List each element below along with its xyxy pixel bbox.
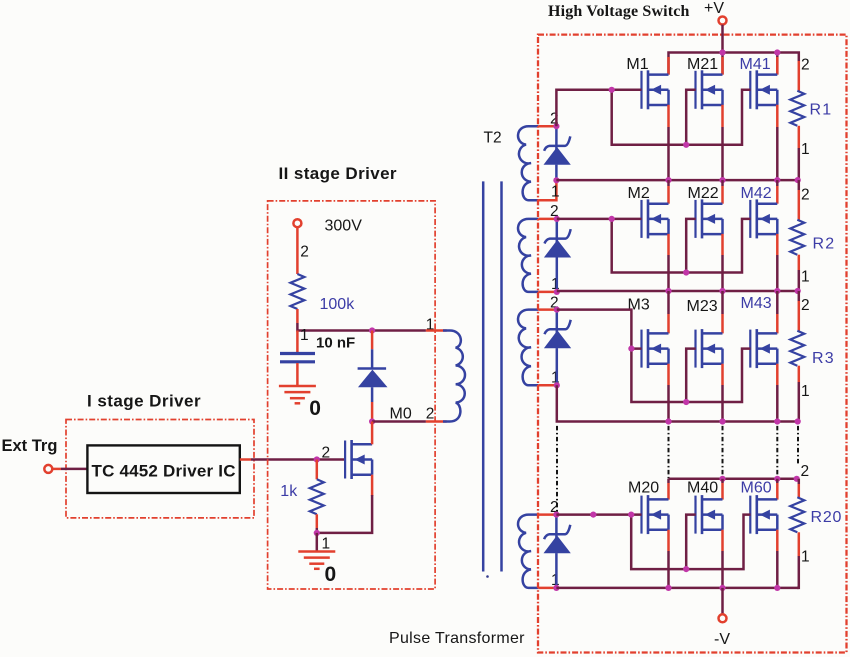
svg-text:300V: 300V xyxy=(325,218,363,235)
M43 name label xyxy=(741,295,772,312)
pin 1 label capacitor xyxy=(300,327,309,344)
I stage Driver title xyxy=(87,392,201,411)
wires row20 source stubs xyxy=(669,530,778,588)
300V terminal xyxy=(293,219,301,227)
transistor M42 xyxy=(750,199,777,238)
svg-text:M2: M2 xyxy=(628,185,650,202)
S4 pin 2 label xyxy=(550,499,559,516)
R2 pin 2 label xyxy=(801,187,810,204)
svg-text:-V: -V xyxy=(714,631,730,648)
transformer T2 primary winding xyxy=(426,331,465,422)
wire row2 gate net xyxy=(557,219,751,273)
R3 pin 2 label xyxy=(801,297,810,314)
svg-text:TC 4452 Driver IC: TC 4452 Driver IC xyxy=(91,462,235,481)
transformer core xyxy=(483,181,501,577)
primary pin 1 label xyxy=(426,316,435,333)
svg-text:R3: R3 xyxy=(812,350,835,367)
svg-text:1k: 1k xyxy=(280,483,298,500)
svg-text:R20: R20 xyxy=(811,509,843,526)
junction M41 drain rail xyxy=(774,49,780,55)
svg-text:M0: M0 xyxy=(390,406,412,423)
300V label xyxy=(325,218,363,235)
svg-text:Pulse Transformer: Pulse Transformer xyxy=(389,630,525,647)
svg-text:2: 2 xyxy=(801,57,810,74)
resistor 100k xyxy=(290,274,304,309)
secondary winding S1 xyxy=(518,126,556,200)
wire to ground 2 xyxy=(316,533,319,552)
High Voltage Switch enclosure box xyxy=(538,35,847,653)
M42 name label xyxy=(741,185,772,202)
R3 pin 1 label xyxy=(801,383,810,400)
zener diode Z2 xyxy=(544,219,571,292)
junction row1 gate rail M21 xyxy=(683,142,689,148)
junction S3 bottom xyxy=(554,382,560,388)
svg-text:M20: M20 xyxy=(628,480,659,497)
wires row3 source stubs xyxy=(669,364,778,422)
junction M0 gate / 1k top xyxy=(314,456,320,462)
ground 0 below 1k xyxy=(298,552,336,587)
wire row1 gate net xyxy=(556,90,750,145)
pin 2 label of R 100k xyxy=(300,244,309,261)
junction row20 gate rail M40 xyxy=(683,566,689,572)
junction node 1 xyxy=(369,327,375,333)
junction +V rail xyxy=(719,49,725,55)
R1 pin 2 label xyxy=(801,57,810,74)
wire 1k bottom stub xyxy=(316,514,319,533)
row20 drain rail xyxy=(669,478,798,481)
wires row2 source stubs xyxy=(669,234,778,291)
M40 name label xyxy=(687,480,718,497)
II stage Driver enclosure box xyxy=(268,201,436,589)
junctions row20 drain rail xyxy=(719,476,799,482)
red pins row1 drains xyxy=(669,57,778,75)
junction row20 gate a xyxy=(590,511,596,517)
wire capacitor to ground xyxy=(296,363,299,386)
M41 name label xyxy=(740,56,771,73)
T2 label xyxy=(484,129,502,146)
transistor M1 xyxy=(642,70,669,109)
transistor M41 xyxy=(750,70,777,109)
junction S4 bottom xyxy=(553,585,559,591)
junction 1k bottom xyxy=(314,530,320,536)
M21 name label xyxy=(687,56,718,73)
II stage Driver title xyxy=(279,164,397,183)
svg-text:M21: M21 xyxy=(687,56,718,73)
S4 pin 1 label xyxy=(551,572,560,589)
M3 name label xyxy=(628,296,650,313)
wire TC4452 output to M0 gate xyxy=(240,458,344,461)
transistor M20 xyxy=(642,495,669,534)
R2 name label xyxy=(813,235,836,252)
svg-text:1: 1 xyxy=(801,269,810,286)
S3 pin 1 label xyxy=(551,369,560,386)
svg-text:M60: M60 xyxy=(741,480,772,497)
row1 drain rail +V xyxy=(669,53,799,75)
+V label xyxy=(704,0,724,17)
svg-text:+V: +V xyxy=(704,0,724,17)
transistor M2 xyxy=(642,199,669,238)
junction S4 top xyxy=(553,511,559,517)
resistor R3 xyxy=(790,291,804,422)
S1 pin 1 label xyxy=(551,184,560,201)
100k value label xyxy=(320,296,356,313)
transistor M22 xyxy=(696,199,723,238)
transistor M3 xyxy=(642,329,669,368)
Pulse Transformer label xyxy=(389,630,525,647)
secondary winding S2 xyxy=(518,219,557,292)
junction S1 bottom xyxy=(553,177,559,183)
wires row2 drain stubs xyxy=(669,180,778,204)
R20 pin 1 label xyxy=(801,549,810,566)
svg-text:M22: M22 xyxy=(688,185,719,202)
M20 name label xyxy=(628,480,659,497)
wire row3 gate net xyxy=(557,310,751,402)
svg-text:M1: M1 xyxy=(626,56,648,73)
resistor R1 xyxy=(790,61,804,180)
transistor M60 xyxy=(750,495,777,534)
junction row1 gate xyxy=(609,87,615,93)
svg-text:M42: M42 xyxy=(741,185,772,202)
svg-text:1: 1 xyxy=(322,536,331,553)
wire +V to rail xyxy=(721,25,724,53)
svg-text:10 nF: 10 nF xyxy=(316,335,355,352)
transistor M21 xyxy=(696,70,723,109)
+V terminal xyxy=(719,17,727,25)
svg-text:1: 1 xyxy=(801,383,810,400)
wire row20 gate net xyxy=(556,515,750,570)
-V terminal xyxy=(719,614,727,622)
wire Ext Trg to TC4452 xyxy=(53,468,88,471)
svg-text:1: 1 xyxy=(801,549,810,566)
wire 100k to node 1 xyxy=(297,309,426,331)
R1 name label xyxy=(810,102,833,119)
row2 source rail xyxy=(557,290,799,293)
Ext Trg label xyxy=(2,437,58,455)
M23 name label xyxy=(687,298,718,315)
wire node to primary pin 2 xyxy=(372,420,426,423)
wires row20 drain stubs xyxy=(669,479,778,500)
svg-text:R2: R2 xyxy=(813,235,836,252)
wire 1k top stub xyxy=(316,460,319,480)
svg-text:M43: M43 xyxy=(741,295,772,312)
M2 name label xyxy=(628,185,650,202)
transistor M43 xyxy=(750,329,777,368)
svg-text:0: 0 xyxy=(325,563,337,586)
resistor R2 xyxy=(790,180,804,291)
svg-text:2: 2 xyxy=(300,244,309,261)
op-amp U1 TC 4452 Driver IC xyxy=(87,445,239,493)
svg-text:T2: T2 xyxy=(484,129,502,146)
secondary winding S3 xyxy=(518,310,557,386)
Ext Trg terminal xyxy=(44,465,52,473)
-V label xyxy=(714,631,730,648)
R20 name label xyxy=(811,509,843,526)
svg-text:2: 2 xyxy=(801,463,810,480)
svg-text:M40: M40 xyxy=(687,480,718,497)
secondary winding S4 xyxy=(518,515,556,588)
wire row3 source rail xyxy=(557,385,799,421)
capacitor C 10nF xyxy=(280,354,315,362)
svg-text:M23: M23 xyxy=(687,298,718,315)
wire node to capacitor xyxy=(296,331,299,353)
S3 pin 2 label xyxy=(550,294,559,311)
row1 source rail xyxy=(556,179,798,182)
I stage Driver enclosure box xyxy=(66,420,254,518)
junction row3 gate rail M23 xyxy=(683,399,689,405)
S1 pin 2 label xyxy=(550,111,559,128)
R3 name label xyxy=(812,350,835,367)
junction row3 gate xyxy=(628,346,634,352)
svg-text:0: 0 xyxy=(309,397,321,420)
transistor M23 xyxy=(696,329,723,368)
wire to -V terminal xyxy=(721,588,724,614)
pin 1 label 1k xyxy=(322,536,331,553)
svg-text:1: 1 xyxy=(551,184,560,201)
svg-text:I stage Driver: I stage Driver xyxy=(87,392,201,411)
S2 pin 2 label xyxy=(550,203,559,220)
junction row20 gate b xyxy=(628,511,634,517)
junction S2 bottom xyxy=(554,289,560,295)
High Voltage Switch title xyxy=(548,3,690,20)
junction row2 gate rail M22 xyxy=(683,269,689,275)
junctions row1 source rail xyxy=(665,177,800,183)
wire M41 drain stub xyxy=(776,53,779,75)
zener diode Z1 xyxy=(544,126,571,180)
svg-text:2: 2 xyxy=(322,445,331,462)
transistor M40 xyxy=(696,495,723,534)
svg-text:Ext Trg: Ext Trg xyxy=(2,437,58,455)
S2 pin 1 label xyxy=(551,276,560,293)
diode D1 xyxy=(358,331,388,422)
junctions row3 source rail xyxy=(665,418,800,424)
resistor R20 xyxy=(790,479,804,588)
resistor 1k xyxy=(310,479,324,514)
junction S2 top xyxy=(554,216,560,222)
junction row2 gate xyxy=(609,216,615,222)
M22 name label xyxy=(688,185,719,202)
junctions row2 source rail xyxy=(665,288,800,294)
junction M0 drain / primary pin 2 xyxy=(369,418,375,424)
10 nF value label xyxy=(316,335,355,352)
svg-text:1: 1 xyxy=(300,327,309,344)
M1 name label xyxy=(626,56,648,73)
M60 name label xyxy=(741,480,772,497)
R1 pin 1 label xyxy=(801,141,810,158)
svg-text:1: 1 xyxy=(801,141,810,158)
svg-text:M41: M41 xyxy=(740,56,771,73)
svg-text:High Voltage Switch: High Voltage Switch xyxy=(548,3,690,20)
svg-text:II stage Driver: II stage Driver xyxy=(279,164,397,183)
ground 0 below capacitor xyxy=(279,386,321,420)
junction S3 top xyxy=(554,307,560,313)
continuation dash lines xyxy=(557,426,798,513)
zener diode Z4 xyxy=(544,515,571,588)
wire M0 source loop xyxy=(317,475,372,533)
1k value label xyxy=(280,483,298,500)
svg-text:2: 2 xyxy=(801,187,810,204)
M0 name label xyxy=(390,406,412,423)
wire M21 drain stub xyxy=(721,53,724,75)
wire 300V to 100k xyxy=(296,227,299,274)
M0 gate pin 2 label xyxy=(322,445,331,462)
svg-text:2: 2 xyxy=(801,297,810,314)
transistor M0 xyxy=(345,422,372,480)
R20 pin 2 label xyxy=(801,463,810,480)
junction S1 top xyxy=(553,123,559,129)
svg-text:2: 2 xyxy=(426,405,435,422)
svg-text:100k: 100k xyxy=(320,296,356,313)
row20 source rail xyxy=(556,587,798,590)
wires row1 source stubs xyxy=(669,105,778,180)
zener diode Z3 xyxy=(544,310,571,386)
primary pin 2 label xyxy=(426,405,435,422)
svg-text:R1: R1 xyxy=(810,102,833,119)
R2 pin 1 label xyxy=(801,269,810,286)
wires row3 drain stubs xyxy=(669,291,778,333)
junctions row20 source rail xyxy=(665,585,780,591)
